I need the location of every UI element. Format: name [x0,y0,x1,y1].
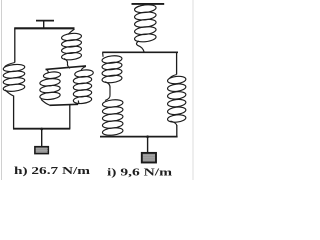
mid bar h [46,66,87,70]
spring S8 (right) [167,75,186,126]
mid bar i [102,51,178,53]
svg-text:h) 26.7 N/m: h) 26.7 N/m [14,166,91,177]
junction dot i [146,135,149,138]
faint left page edge [1,0,3,180]
spring S3 (parallel left) [39,70,60,106]
wire left upper [14,28,16,62]
ceiling line i [132,3,165,5]
support cap (T top) [36,20,54,22]
mass box h [35,147,48,154]
connector between S6 and S7 [105,82,110,101]
top bar [14,27,74,29]
spring S6 (left upper) [102,52,123,83]
faint right page edge [192,0,194,180]
right wire lower i [176,125,178,137]
wire joining to bottom bar [69,105,71,129]
svg-text:i) 9,6 N/m: i) 9,6 N/m [107,167,173,178]
right wire upper i [176,52,178,74]
mass stub i [147,137,149,152]
mass stub h [41,129,43,146]
junction dot h [40,128,43,131]
mass box i [142,153,156,163]
spring S1 (left branch) [3,63,25,96]
spring S5 (top) [134,4,156,53]
bottom bar i [100,136,178,138]
wire left lower [13,96,15,129]
support stub [43,21,45,29]
bottom bar h [13,128,70,130]
spring S4 (parallel right) [73,67,94,105]
spring S2 (upper right branch) [61,29,82,68]
spring S7 (left lower) [102,99,123,136]
bottom small bar h [50,104,79,105]
